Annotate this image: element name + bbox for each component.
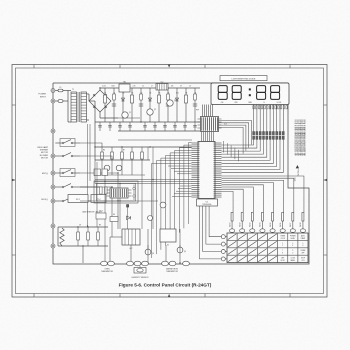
power rails [89,87,200,131]
varistor and snubber block [58,225,108,264]
microcomputer IC1 [192,142,222,199]
mid rails [94,122,192,160]
oscillator X1 [160,229,176,246]
driver output elbows [219,121,252,154]
transformer T1 [68,89,89,122]
display digit 8 (1) [218,86,227,100]
bridge rectifier D1-D4 [89,88,118,118]
display legends [221,102,282,104]
label power input [38,94,46,99]
display digit 8 (3) [257,86,266,100]
wire bundle resistor array to IC1 [222,140,284,173]
connector terminals CN-A [51,89,55,249]
segment driver IC3 [198,117,227,132]
key switches (matrix diagonals) [228,234,277,262]
IC1 label [197,199,218,206]
border tick marks [12,65,327,298]
display pins [203,105,288,117]
border frame [12,65,327,298]
anode wire stubs [224,141,239,161]
label MGT(+) [41,199,48,201]
left interconnect wires [80,143,158,237]
transistors Q1 Q2 Q3 [122,100,176,118]
label FIP [196,110,200,112]
bottom cluster wires [109,229,180,264]
wire bundle IC left [152,143,192,259]
mid vertical wires [97,147,154,263]
wire bundle IC to keyboard columns [222,176,304,213]
hybrid IC HIC1 [122,229,140,250]
relay contacts RY1-RY5 [55,139,80,202]
display colon [249,88,251,96]
signal bus wires [95,160,192,184]
fuse F1 [55,87,68,102]
keypad legends [280,234,305,262]
filter capacitors [98,122,197,131]
thermistor labels [101,266,179,279]
display digit 8 (2) [232,86,241,100]
driver to IC1 wires [202,132,214,142]
relay coils RY-1 RY-2 [68,187,106,203]
display digit 8 (4) [271,86,280,100]
schematic boundary box [53,83,309,264]
hybrid IC HIC2 [107,188,132,203]
resistor array R11-R20 [253,105,285,140]
transistors Q4 Q5 Q6 [145,202,186,255]
display module bezel [211,83,289,105]
power supply components [104,88,198,122]
keyboard row terminals [221,235,227,261]
label oven lamp / stirrer / blower motor [37,146,49,159]
mid lower components [96,211,153,222]
label light emitting diode [220,76,267,81]
voltage regulator IC2 [156,82,168,90]
signal name labels [294,119,306,182]
thermistor elements on bus [101,261,190,266]
label MGT(-) [42,173,48,175]
keyboard matrix grid [227,233,308,263]
mid-left components [95,147,145,175]
shield enclosure [94,181,138,203]
shield box components [94,169,135,229]
keyboard column resistors [229,213,305,234]
component value labels [102,86,191,88]
figure caption [119,283,212,288]
line filter box [119,82,130,92]
label gas sensor circuit [82,211,103,214]
wire bundle IC to keyboard rows [200,206,222,259]
left vertical feed wires [87,124,90,227]
